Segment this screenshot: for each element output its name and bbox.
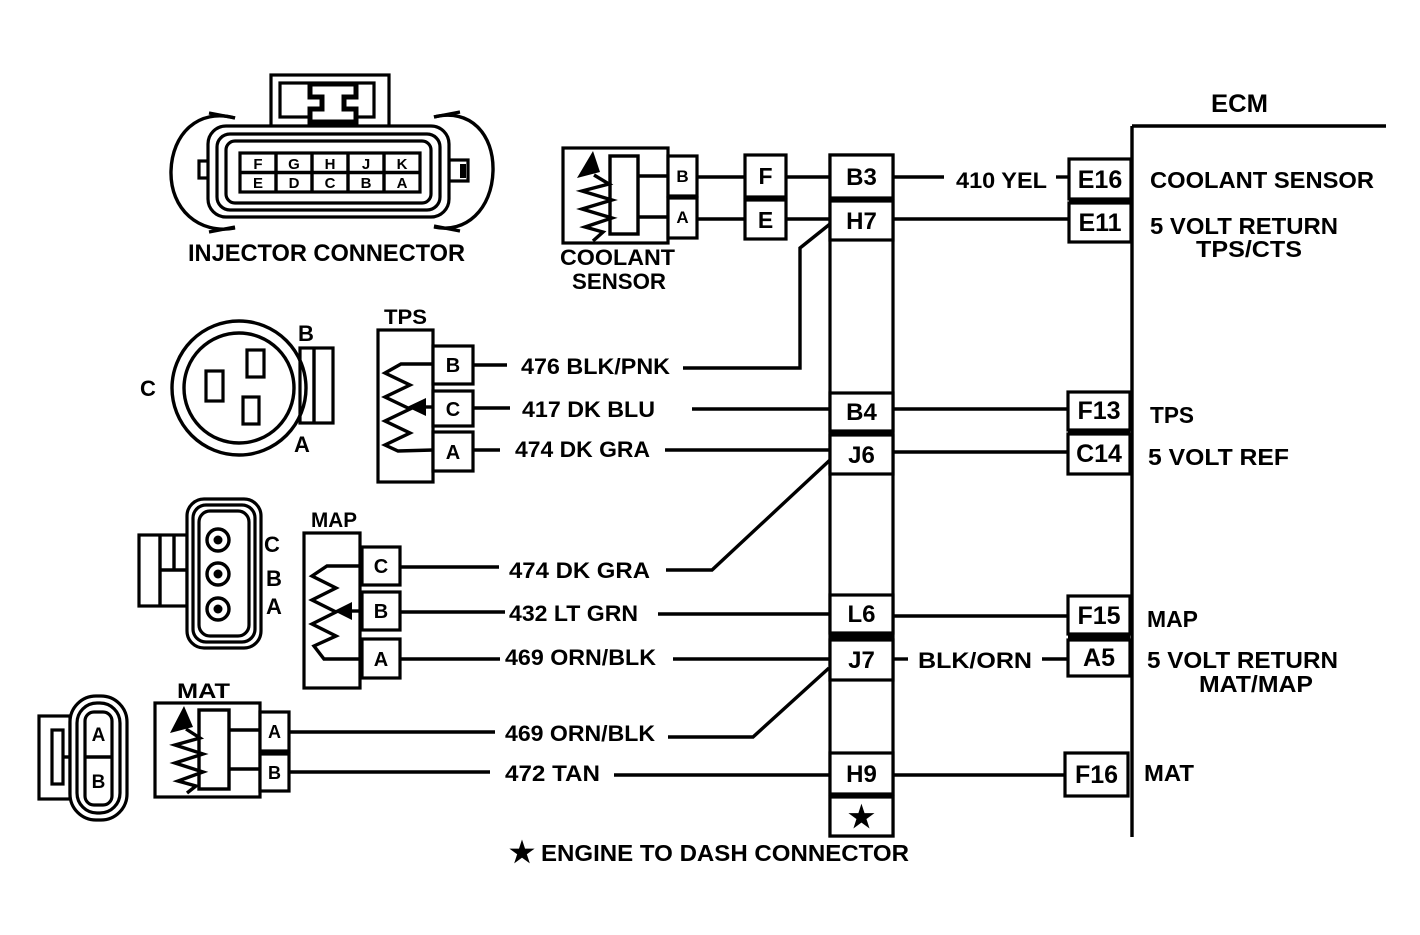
svg-text:E16: E16 [1078,166,1122,194]
svg-text:F16: F16 [1075,761,1118,789]
svg-text:474 DK GRA: 474 DK GRA [515,437,650,462]
MAT connector body [70,696,127,820]
wire H9 to F16 [893,773,1065,776]
MAP wiper arrow [334,602,352,620]
MAP pin C [362,547,400,585]
svg-text:A: A [374,649,388,671]
svg-text:469 ORN/BLK: 469 ORN/BLK [505,645,656,670]
TPS pin A [433,432,473,471]
node B4 [830,393,893,431]
svg-text:H: H [325,156,336,173]
svg-text:J7: J7 [848,647,875,674]
svg-text:MAT: MAT [1144,760,1194,786]
svg-text:ENGINE TO DASH CONNECTOR: ENGINE TO DASH CONNECTOR [541,840,909,866]
svg-text:ECM: ECM [1211,90,1268,118]
wire stub TPS A [473,448,500,451]
MAP pin A [362,639,400,678]
ECM pin E11 [1069,203,1131,242]
svg-text:A: A [397,175,408,192]
TPS wiper arrow [407,398,426,416]
MAP pin B [362,592,400,630]
TPS round connector outer circle [172,321,306,455]
coolant sensor plug profile [610,156,638,234]
MAT pin B [260,754,289,791]
MAT thermistor zigzag [175,729,203,793]
svg-text:B: B [446,355,460,377]
node J6 [830,435,893,474]
ECM pin F15 [1068,596,1130,634]
node L6 [830,595,893,633]
svg-text:H7: H7 [846,208,877,235]
wire stub TPS C [473,406,510,409]
engine harness connector strip [830,155,893,836]
wire F to B3 [786,175,830,178]
svg-text:★: ★ [509,837,535,869]
node B3 [830,155,893,198]
injector connector pin letters bottom row E D C B A [253,175,408,192]
svg-text:E: E [758,207,773,233]
wire 469 ORN/BLK MAT A to J7 [668,668,829,737]
svg-text:472 TAN: 472 TAN [505,761,600,786]
svg-text:B: B [298,321,314,346]
svg-text:MAP: MAP [311,509,357,532]
MAT plug profile [199,710,229,789]
svg-text:5 VOLT RETURN: 5 VOLT RETURN [1147,647,1338,673]
coolant sensor pin B [668,156,697,196]
wire L6 to F15 [893,614,1068,617]
svg-text:B: B [266,566,282,591]
svg-text:A: A [676,208,688,227]
ECM pin C14 [1068,434,1130,474]
wire H7 to E11 [893,217,1069,220]
wire 472 TAN to H9 [614,773,830,776]
svg-text:TPS/CTS: TPS/CTS [1196,236,1302,262]
svg-text:A: A [446,442,460,464]
svg-text:K: K [397,156,408,173]
injector connector pin letters top row F G H J K [253,156,407,173]
svg-text:474 DK GRA: 474 DK GRA [509,558,650,583]
engine-dash connector pin F [745,155,786,197]
svg-text:C: C [264,532,280,557]
MAP potentiometer zigzag [312,566,360,659]
svg-text:A: A [266,594,282,619]
svg-text:C: C [374,556,388,578]
svg-text:410 YEL: 410 YEL [956,168,1047,193]
injector connector left wing [171,116,235,229]
wire stub MAT A [289,730,495,733]
svg-text:C: C [325,175,336,192]
engine-dash connector pin E [745,200,786,239]
ECM pin E16 [1069,159,1131,199]
TPS round connector tab [300,348,333,423]
wire coolant A to E [697,217,745,220]
node J7 [830,640,893,680]
injector connector body [208,126,449,217]
svg-text:COOLANT: COOLANT [560,245,676,270]
svg-text:L6: L6 [847,601,875,628]
svg-text:C: C [446,399,460,421]
ECM boundary [1132,124,1386,127]
wire 417 DK BLU to B4 [692,407,830,410]
TPS round connector inner circle [184,333,294,443]
svg-text:F13: F13 [1077,397,1120,425]
injector connector right wing [434,115,493,228]
coolant sensor thermistor zigzag [582,175,612,241]
TPS sensor box [378,330,433,482]
MAP connector body [187,499,261,648]
wire stub MAP A [400,657,500,660]
MAP connector mounting bracket [139,535,187,606]
MAP connector pin C socket [207,529,229,551]
wire 474 DK GRA MAP C to J6 [666,460,830,570]
ECM pin A5 [1068,640,1130,676]
MAP sensor box [304,533,360,688]
wire coolant B to F [697,175,745,178]
svg-text:J6: J6 [848,442,875,469]
svg-text:BLK/ORN: BLK/ORN [918,648,1032,673]
TPS pin C [433,391,473,426]
MAT thermistor arrow [170,706,193,733]
svg-text:TPS: TPS [1150,402,1194,428]
svg-text:B: B [676,167,688,186]
wire stub MAP C [400,565,499,568]
svg-text:MAP: MAP [1147,606,1198,632]
svg-text:B3: B3 [846,164,877,191]
svg-text:MAT: MAT [177,680,230,703]
svg-text:F: F [758,163,772,189]
svg-text:C14: C14 [1076,440,1122,468]
svg-text:5 VOLT REF: 5 VOLT REF [1148,444,1289,470]
svg-text:TPS: TPS [384,306,427,329]
wire stub MAT B [289,770,490,773]
svg-text:SENSOR: SENSOR [572,269,666,294]
svg-text:COOLANT SENSOR: COOLANT SENSOR [1150,167,1374,193]
engine-to-dash star cell [830,797,893,836]
wire 474 DK GRA to J6 [665,448,830,451]
TPS pin B [433,346,473,384]
wire 476 BLK/PNK to H7 [683,224,830,368]
wire stub MAP B [400,610,505,613]
node H7 [830,201,893,240]
MAP connector pin B socket [207,563,229,585]
node H9 [830,753,893,794]
svg-text:★: ★ [848,801,875,834]
MAP connector pin A socket [207,598,229,620]
svg-text:469 ORN/BLK: 469 ORN/BLK [505,721,655,746]
wire stub TPS B [473,363,507,366]
svg-text:476 BLK/PNK: 476 BLK/PNK [521,354,670,379]
svg-text:H9: H9 [846,761,877,788]
svg-text:G: G [288,156,300,173]
svg-text:B4: B4 [846,399,877,426]
MAT connector mounting bracket [39,716,70,799]
svg-text:C: C [140,376,156,401]
injector connector top tab [271,75,389,127]
svg-text:417 DK BLU: 417 DK BLU [522,397,655,422]
wire B3 to E16 segment [893,175,944,178]
wire B4 to F13 [893,407,1068,410]
svg-text:A: A [268,722,281,742]
svg-text:B: B [92,772,106,793]
svg-text:A: A [92,725,106,746]
injector connector pin grid [240,153,420,192]
svg-text:INJECTOR CONNECTOR: INJECTOR CONNECTOR [188,240,465,267]
MAT sensor box [155,703,260,797]
coolant sensor pin A [668,198,697,238]
injector connector keyway I-beam [310,84,356,122]
svg-text:A5: A5 [1083,644,1115,672]
svg-text:432 LT GRN: 432 LT GRN [509,601,638,626]
coolant sensor thermistor arrow [577,151,600,178]
injector connector right side tab [449,160,468,181]
svg-text:D: D [289,175,300,192]
svg-text:B: B [268,763,281,783]
svg-text:A: A [294,432,310,457]
svg-text:J: J [362,156,370,173]
TPS potentiometer zigzag [385,364,433,451]
svg-text:B: B [374,601,388,623]
svg-text:F15: F15 [1077,602,1120,630]
ECM pin F16 [1065,753,1128,796]
svg-text:E11: E11 [1078,209,1121,237]
ECM pin F13 [1068,392,1130,430]
TPS round connector pin slots [247,350,264,377]
svg-text:MAT/MAP: MAT/MAP [1199,671,1313,697]
wire 432 LT GRN to L6 [658,612,830,615]
wire E to H7 [786,217,830,220]
wire J6 to C14 [893,450,1068,453]
svg-text:F: F [253,156,262,173]
MAT pin A [260,712,289,751]
svg-text:B: B [361,175,372,192]
wire J7 to A5 segment [893,657,908,660]
injector connector left side tab [199,161,210,178]
wire 469 ORN/BLK MAP A to J7 [673,657,830,660]
coolant sensor box [563,148,668,243]
svg-text:E: E [253,175,263,192]
